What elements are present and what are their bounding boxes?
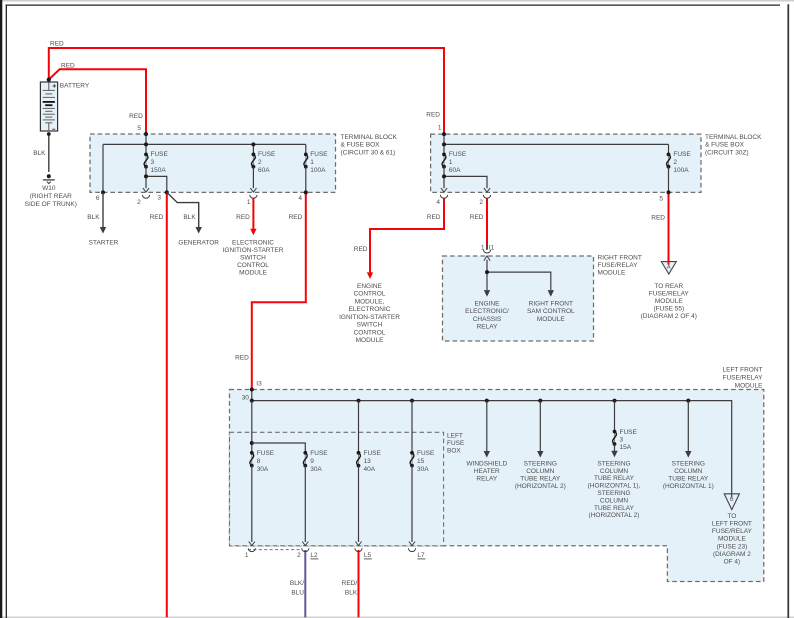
svg-text:RED: RED — [354, 246, 368, 253]
svg-text:L5: L5 — [364, 552, 372, 559]
svg-text:MODULE: MODULE — [537, 316, 565, 323]
svg-text:TUBE RELAY: TUBE RELAY — [668, 475, 709, 482]
svg-text:(DIAGRAM 2: (DIAGRAM 2 — [713, 551, 751, 558]
svg-text:RED: RED — [470, 214, 484, 221]
svg-text:9: 9 — [310, 458, 314, 465]
svg-text:(HORIZONTAL 1),: (HORIZONTAL 1), — [588, 483, 641, 490]
svg-text:BLK: BLK — [183, 214, 196, 221]
svg-text:2: 2 — [479, 199, 483, 206]
svg-text:30A: 30A — [257, 466, 269, 473]
svg-text:RELAY: RELAY — [477, 324, 498, 331]
svg-text:3: 3 — [157, 195, 161, 202]
svg-text:(CIRCUIT 30 & 61): (CIRCUIT 30 & 61) — [341, 149, 396, 156]
svg-text:LEFT: LEFT — [447, 433, 463, 440]
svg-text:2: 2 — [297, 552, 301, 559]
svg-text:RED/: RED/ — [342, 580, 358, 587]
svg-text:1: 1 — [481, 244, 485, 251]
svg-text:COLUMN: COLUMN — [600, 497, 628, 504]
svg-text:MODULE: MODULE — [718, 536, 746, 543]
svg-text:150A: 150A — [151, 167, 167, 174]
svg-text:FUSE: FUSE — [417, 450, 435, 457]
svg-text:8: 8 — [257, 458, 261, 465]
svg-text:FUSE: FUSE — [257, 450, 275, 457]
svg-text:RED: RED — [129, 113, 143, 120]
svg-text:RED: RED — [50, 41, 64, 48]
svg-text:5: 5 — [659, 195, 663, 202]
svg-text:60A: 60A — [258, 167, 270, 174]
svg-text:2: 2 — [258, 159, 262, 166]
svg-text:CONTROL: CONTROL — [354, 291, 386, 298]
svg-text:ENGINE: ENGINE — [357, 283, 383, 290]
svg-text:A: A — [667, 265, 671, 271]
svg-text:1: 1 — [247, 199, 251, 206]
svg-text:RED: RED — [235, 354, 249, 361]
svg-text:(FUSE 23): (FUSE 23) — [717, 543, 748, 550]
svg-text:(HORIZONTAL 2): (HORIZONTAL 2) — [515, 483, 566, 490]
svg-text:STARTER: STARTER — [89, 240, 119, 247]
svg-text:30: 30 — [242, 394, 250, 401]
svg-text:40A: 40A — [364, 466, 376, 473]
svg-text:TO REAR: TO REAR — [654, 283, 683, 290]
svg-text:FUSE/RELAY: FUSE/RELAY — [598, 262, 639, 269]
svg-text:15: 15 — [417, 458, 425, 465]
svg-text:TO: TO — [727, 513, 736, 520]
svg-text:ENGINE: ENGINE — [475, 301, 501, 308]
svg-text:FUSE/RELAY: FUSE/RELAY — [712, 528, 753, 535]
svg-text:FUSE: FUSE — [258, 151, 276, 158]
svg-text:STEERING: STEERING — [597, 460, 630, 467]
svg-text:1: 1 — [449, 159, 453, 166]
svg-text:TUBE RELAY: TUBE RELAY — [520, 475, 561, 482]
svg-text:FUSE: FUSE — [447, 440, 465, 447]
svg-text:15A: 15A — [620, 444, 632, 451]
svg-text:BATTERY: BATTERY — [60, 83, 90, 90]
svg-text:RED: RED — [427, 214, 441, 221]
svg-text:STEERING: STEERING — [524, 460, 557, 467]
svg-text:1: 1 — [245, 552, 249, 559]
svg-text:STEERING: STEERING — [597, 490, 630, 497]
svg-text:30A: 30A — [310, 466, 322, 473]
svg-text:MODULE: MODULE — [655, 298, 683, 305]
svg-text:RED: RED — [150, 214, 164, 221]
svg-text:MODULE: MODULE — [735, 382, 763, 389]
svg-text:2: 2 — [137, 199, 141, 206]
svg-text:RIGHT FRONT: RIGHT FRONT — [529, 301, 573, 308]
svg-text:RIGHT FRONT: RIGHT FRONT — [598, 255, 642, 262]
svg-text:3: 3 — [620, 436, 624, 443]
svg-text:BOX: BOX — [447, 448, 461, 455]
svg-text:WINDSHIELD: WINDSHIELD — [466, 460, 507, 467]
svg-text:FUSE: FUSE — [310, 450, 328, 457]
svg-text:OF 4): OF 4) — [724, 559, 741, 566]
svg-text:BLK: BLK — [345, 589, 358, 596]
svg-text:MODULE: MODULE — [356, 337, 384, 344]
svg-text:1: 1 — [310, 159, 314, 166]
svg-text:30A: 30A — [417, 466, 429, 473]
svg-text:(HORIZONTAL 2): (HORIZONTAL 2) — [589, 512, 640, 519]
svg-text:LEFT FRONT: LEFT FRONT — [723, 366, 763, 373]
svg-text:4: 4 — [436, 199, 440, 206]
svg-text:BLK: BLK — [33, 150, 46, 157]
svg-text:B: B — [730, 497, 734, 503]
svg-text:CHASSIS: CHASSIS — [473, 316, 502, 323]
svg-text:BLK: BLK — [87, 214, 100, 221]
svg-text:(CIRCUIT 30Z): (CIRCUIT 30Z) — [705, 149, 749, 156]
svg-text:FUSE: FUSE — [620, 429, 638, 436]
svg-text:RED: RED — [289, 214, 303, 221]
svg-text:60A: 60A — [449, 167, 461, 174]
svg-text:TERMINAL BLOCK: TERMINAL BLOCK — [341, 134, 398, 141]
svg-text:BLK/: BLK/ — [290, 580, 304, 587]
svg-text:IGNITION-STARTER: IGNITION-STARTER — [223, 247, 284, 254]
svg-text:L7: L7 — [417, 552, 425, 559]
svg-text:FUSE: FUSE — [673, 151, 691, 158]
svg-text:RED: RED — [426, 112, 440, 119]
svg-text:CONTROL: CONTROL — [237, 262, 269, 269]
svg-text:5: 5 — [137, 125, 141, 132]
svg-text:I1: I1 — [489, 244, 495, 251]
svg-text:FUSE/RELAY: FUSE/RELAY — [649, 291, 690, 298]
svg-text:RED: RED — [61, 62, 75, 69]
svg-text:LEFT FRONT: LEFT FRONT — [712, 521, 752, 528]
svg-text:RED: RED — [651, 215, 665, 222]
svg-text:(HORIZONTAL 1): (HORIZONTAL 1) — [663, 483, 714, 490]
svg-text:& FUSE BOX: & FUSE BOX — [341, 142, 381, 149]
svg-text:FUSE/RELAY: FUSE/RELAY — [723, 374, 764, 381]
svg-text:BLU: BLU — [291, 589, 304, 596]
svg-text:FUSE: FUSE — [364, 450, 382, 457]
svg-text:SIDE OF TRUNK): SIDE OF TRUNK) — [25, 201, 77, 208]
svg-text:FUSE: FUSE — [449, 151, 467, 158]
svg-text:W10: W10 — [42, 185, 56, 192]
svg-text:ELECTRONIC/: ELECTRONIC/ — [465, 308, 509, 315]
svg-text:CONTROL: CONTROL — [354, 329, 386, 336]
svg-text:IGNITION-STARTER: IGNITION-STARTER — [339, 314, 400, 321]
svg-text:GENERATOR: GENERATOR — [178, 240, 219, 247]
svg-text:4: 4 — [298, 195, 302, 202]
svg-text:(DIAGRAM 2 OF 4): (DIAGRAM 2 OF 4) — [641, 313, 697, 320]
svg-text:COLUMN: COLUMN — [526, 468, 554, 475]
svg-text:RELAY: RELAY — [476, 475, 497, 482]
svg-text:2: 2 — [673, 159, 677, 166]
svg-text:TERMINAL BLOCK: TERMINAL BLOCK — [705, 134, 762, 141]
svg-text:13: 13 — [364, 458, 372, 465]
svg-text:COLUMN: COLUMN — [674, 468, 702, 475]
svg-text:3: 3 — [151, 159, 155, 166]
svg-text:L2: L2 — [310, 552, 318, 559]
svg-text:SWITCH: SWITCH — [240, 255, 266, 262]
svg-text:HEATER: HEATER — [474, 468, 500, 475]
svg-text:SWITCH: SWITCH — [357, 322, 383, 329]
svg-text:6: 6 — [96, 195, 100, 202]
svg-text:100A: 100A — [673, 167, 689, 174]
svg-text:RED: RED — [236, 214, 250, 221]
svg-text:MODULE,: MODULE, — [355, 298, 385, 305]
svg-text:FUSE: FUSE — [151, 151, 169, 158]
svg-text:STEERING: STEERING — [672, 460, 705, 467]
svg-text:(RIGHT REAR: (RIGHT REAR — [30, 193, 72, 200]
svg-text:(FUSE 55): (FUSE 55) — [653, 306, 684, 313]
svg-text:COLUMN: COLUMN — [600, 468, 628, 475]
svg-text:TUBE RELAY: TUBE RELAY — [594, 505, 635, 512]
svg-text:MODULE: MODULE — [598, 270, 626, 277]
svg-text:SAM CONTROL: SAM CONTROL — [527, 308, 575, 315]
svg-text:100A: 100A — [310, 167, 326, 174]
svg-text:ELECTRONIC: ELECTRONIC — [349, 306, 391, 313]
svg-text:ELECTRONIC: ELECTRONIC — [232, 240, 274, 247]
svg-text:FUSE: FUSE — [310, 151, 328, 158]
svg-text:I3: I3 — [256, 381, 262, 388]
svg-text:1: 1 — [438, 124, 442, 131]
svg-text:TUBE RELAY: TUBE RELAY — [594, 475, 635, 482]
svg-text:MODULE: MODULE — [239, 270, 267, 277]
svg-text:& FUSE BOX: & FUSE BOX — [705, 142, 745, 149]
